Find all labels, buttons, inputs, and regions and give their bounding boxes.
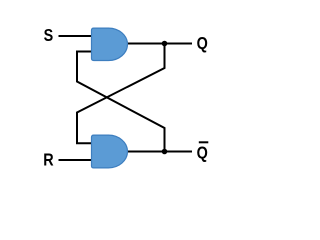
- wire: feedback from Q-bar node to top gate lower input: [77, 52, 165, 152]
- svg-text:Q: Q: [197, 143, 208, 163]
- wire: bottom gate output to Q-bar: [126, 151, 192, 153]
- node: Q junction dot: [162, 41, 168, 47]
- gate: bottom AND (SR latch, R input): [92, 135, 128, 168]
- wire: top gate output to Q: [126, 43, 192, 45]
- node: Q-bar junction dot: [162, 149, 168, 155]
- wire: R input to bottom gate: [59, 159, 94, 161]
- wire: feedback from Q node to bottom gate upper input: [77, 44, 165, 144]
- svg-text:R: R: [43, 150, 54, 170]
- svg-text:Q: Q: [197, 34, 208, 54]
- wire: S input to top gate: [59, 35, 94, 37]
- overbar of Q-bar: [199, 141, 209, 143]
- gate: top AND (SR latch, S input): [92, 28, 128, 60]
- svg-text:S: S: [44, 26, 54, 46]
